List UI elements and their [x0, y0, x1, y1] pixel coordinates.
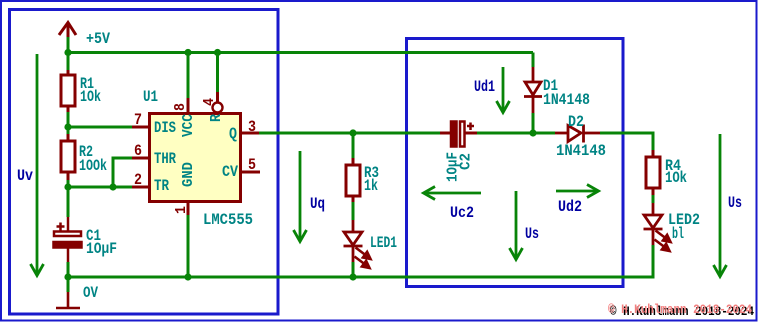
wire C2 to D1 node: [477, 132, 555, 135]
LED LED2: [644, 203, 663, 245]
voltage arrow Ud1: [497, 67, 510, 113]
voltage arrow Uq: [294, 151, 307, 242]
wire D1 bottom: [532, 113, 535, 133]
pin 2 TR stub: [132, 186, 149, 189]
svg-text:4: 4: [201, 98, 218, 106]
wire +5V rail: [68, 51, 533, 54]
svg-text:1k: 1k: [364, 177, 378, 195]
svg-text:+5V: +5V: [86, 30, 110, 48]
svg-text:6: 6: [134, 142, 142, 160]
diode D2 (horizontal): [555, 125, 600, 143]
svg-text:Uq: Uq: [310, 195, 325, 213]
svg-text:Ud2: Ud2: [558, 198, 582, 216]
svg-text:2: 2: [134, 171, 142, 189]
svg-text:© H.Kuhlmann 2018-2024: © H.Kuhlmann 2018-2024: [608, 303, 752, 317]
LED LED1: [344, 220, 363, 262]
wire C1 top: [67, 187, 70, 217]
diode D1 (vertical): [524, 67, 542, 113]
wire Q output line: [259, 132, 440, 135]
wire TR (pin 2): [68, 186, 132, 189]
svg-text:Ud1: Ud1: [474, 78, 495, 96]
svg-text:U1: U1: [143, 88, 158, 106]
resistor R3: [346, 158, 360, 202]
pin 4 R wire: [216, 53, 219, 93]
ground symbol: [56, 292, 80, 308]
pin 4 inversion bubble: [213, 103, 223, 113]
node junction Q/R3: [349, 129, 356, 136]
power symbol +5V arrow: [59, 22, 76, 38]
node junction LED1 rail: [349, 273, 356, 280]
node junction R1/R2/DIS: [64, 123, 71, 130]
node junction D1/C2/D2: [529, 129, 536, 136]
svg-text:1OOk: 1OOk: [79, 157, 107, 175]
right region box (rectifier block): [407, 39, 624, 287]
left dashed region box (astable oscillator block): [10, 10, 279, 315]
wire R2 top: [67, 127, 70, 134]
LED2 emission arrows: [655, 231, 671, 252]
capacitor C2 (polarized, horizontal): [451, 122, 477, 147]
op-amp/timer U1 LMC555 body: [150, 114, 241, 202]
wire D1 top from rail: [532, 53, 535, 68]
pin 8 VCC stub: [187, 98, 190, 113]
wire C2 left lead: [440, 132, 451, 135]
wire THR branch vertical: [112, 158, 115, 187]
pin 4 R stub: [216, 92, 219, 102]
voltage arrow Uc2: [424, 187, 482, 200]
wire THR branch horizontal (pin 6): [112, 157, 133, 160]
node junction R2/TR/C1: [64, 183, 71, 190]
svg-text:LMC555: LMC555: [203, 211, 253, 229]
svg-text:1N4148: 1N4148: [556, 142, 606, 160]
svg-text:CV: CV: [222, 163, 238, 181]
wire R3 top: [352, 133, 355, 158]
pin 3 Q stub: [241, 132, 259, 135]
wire R1 top: [67, 53, 70, 71]
svg-text:8: 8: [172, 103, 189, 111]
svg-text:Q: Q: [229, 125, 237, 143]
wire R1 bottom to node: [67, 112, 70, 127]
node junction C1/ground rail: [64, 273, 71, 280]
node junction GND pin rail: [184, 273, 191, 280]
voltage arrow Ud2: [556, 185, 599, 198]
svg-text:1Ok: 1Ok: [665, 169, 687, 187]
wire +5V stub below arrow: [67, 37, 70, 53]
svg-text:TR: TR: [154, 177, 169, 195]
wire LED2 to rail: [652, 245, 655, 279]
svg-text:GND: GND: [180, 162, 197, 187]
wire 0V bottom rail: [68, 276, 653, 279]
wire D2 to R4 corner: [600, 133, 653, 150]
pin 5 CV stub: [241, 171, 260, 174]
wire ground stub: [67, 277, 70, 292]
wire R2 bottom to node: [67, 180, 70, 187]
svg-text:7: 7: [134, 111, 142, 129]
pin 8 VCC wire: [187, 53, 190, 99]
voltage arrow Uv: [31, 54, 44, 276]
svg-text:Us: Us: [525, 225, 539, 243]
svg-text:R: R: [208, 114, 225, 122]
resistor R1: [61, 70, 75, 112]
node junction VCC rail: [184, 49, 191, 56]
wire DIS (pin 7): [68, 126, 132, 129]
svg-text:THR: THR: [154, 150, 176, 168]
pin 7 DIS stub: [132, 126, 149, 129]
resistor R2: [61, 134, 75, 180]
svg-text:1N4148: 1N4148: [543, 91, 590, 109]
capacitor C1 (polarized): [54, 217, 82, 262]
resistor R4: [646, 150, 660, 195]
svg-text:3: 3: [248, 118, 256, 136]
svg-text:5: 5: [248, 156, 256, 174]
svg-text:1OµF: 1OµF: [86, 240, 117, 258]
svg-text:VCC: VCC: [180, 114, 197, 137]
svg-text:C2: C2: [458, 153, 475, 170]
svg-text:Us: Us: [728, 194, 742, 212]
pin 6 THR stub: [132, 157, 149, 160]
svg-text:DIS: DIS: [154, 119, 176, 137]
wire R4 to LED2: [652, 195, 655, 203]
node junction R-pin rail: [214, 49, 221, 56]
svg-text:Uv: Uv: [17, 167, 33, 185]
svg-text:bl: bl: [672, 225, 684, 243]
wire LED1 to rail: [352, 262, 355, 277]
wire C1 bottom to rail: [67, 262, 70, 277]
node junction +5V/R1: [64, 49, 71, 56]
voltage arrow Us (output, right): [714, 134, 727, 277]
svg-text:D2: D2: [568, 113, 584, 131]
svg-text:1Ok: 1Ok: [80, 88, 101, 106]
svg-text:LED1: LED1: [370, 234, 397, 252]
wire R3 to LED1: [352, 202, 355, 220]
svg-text:OV: OV: [83, 284, 98, 302]
svg-text:1: 1: [173, 206, 190, 214]
svg-text:Uc2: Uc2: [450, 204, 474, 222]
pin 1 GND stub: [187, 202, 190, 215]
pin 1 GND wire to rail: [187, 215, 190, 277]
voltage arrow Us (inside box): [510, 191, 523, 260]
LED1 emission arrows: [355, 248, 371, 269]
node junction THR branch: [109, 183, 116, 190]
